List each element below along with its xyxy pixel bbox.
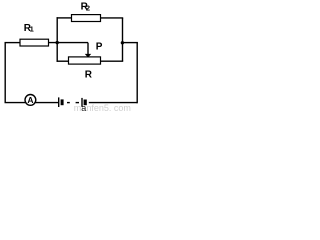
potentiometer R box — [69, 57, 101, 64]
wiper arrow stem — [87, 43, 89, 55]
battery cell 2 long plate — [81, 98, 83, 107]
wire top-right horizontal to battery branch — [122, 42, 138, 44]
wire right vertical — [136, 43, 138, 104]
wire R2 top left segment — [57, 17, 72, 19]
svg-text:P: P — [96, 42, 103, 53]
svg-text:2: 2 — [86, 3, 90, 12]
battery cell 2 short thick plate — [84, 100, 87, 106]
wire bottom horizontal left segment — [5, 102, 26, 104]
svg-text:manfen5. com: manfen5. com — [74, 103, 131, 111]
battery cell 1 long plate — [58, 97, 60, 107]
ammeter A — [25, 95, 36, 106]
junction node at R1 right — [56, 41, 59, 44]
wire bottom horizontal right segment — [89, 102, 137, 104]
wire pot right segment — [101, 60, 124, 62]
svg-text:A: A — [27, 95, 33, 105]
battery dash 1 — [67, 102, 70, 104]
wire bottom horizontal middle segment — [36, 102, 59, 104]
svg-text:1: 1 — [30, 25, 34, 34]
junction node at right branch — [121, 41, 124, 44]
wire R1 left segment — [5, 42, 21, 44]
resistor R2 box — [72, 15, 101, 22]
battery dash 2 — [76, 102, 79, 104]
wire R1 right to wiper — [49, 42, 89, 44]
battery cell 1 short thick plate — [61, 99, 64, 105]
svg-text:R: R — [85, 70, 93, 81]
wire inner-left vertical — [56, 17, 58, 62]
wiper arrowhead P — [85, 54, 91, 58]
wire pot left segment — [57, 60, 69, 62]
wire inner-right vertical — [122, 18, 124, 61]
wire left vertical — [4, 43, 6, 103]
resistor R1 box — [20, 39, 49, 46]
wire R2 top right segment — [101, 17, 124, 19]
